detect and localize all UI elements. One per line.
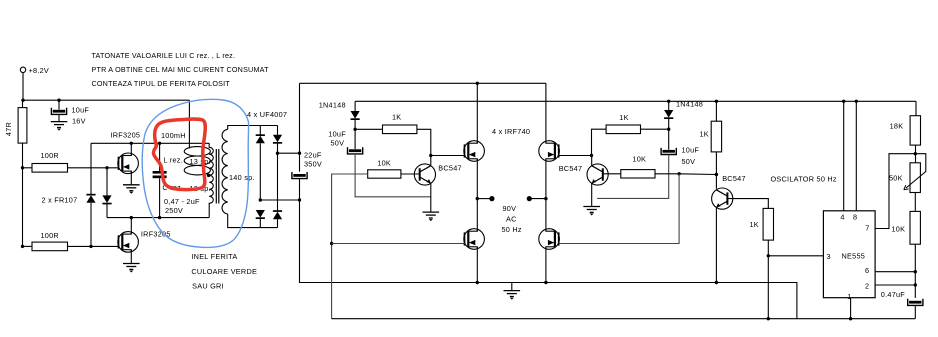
resistor 10K left driver [368, 159, 401, 179]
node bus DC minus [298, 198, 301, 201]
capacitor C rez 0.47-2uF 250V [153, 143, 200, 217]
node supply left [21, 99, 24, 102]
wire source M4 to ground line [545, 247, 547, 283]
resistor 47R [4, 108, 27, 144]
wire 1K to gate node M3 [559, 129, 606, 155]
terminal output left [489, 196, 494, 201]
svg-text:18K: 18K [890, 122, 904, 131]
transistor BC547 oscillator buffer [712, 174, 746, 209]
pin 3 [768, 252, 831, 261]
terminal +8.2V [20, 66, 49, 75]
transformer primary 13sp upper [190, 143, 214, 175]
diode 1N4148 left [319, 101, 360, 130]
svg-text:+8.2V: +8.2V [29, 66, 50, 75]
svg-text:2 x FR107: 2 x FR107 [42, 196, 78, 205]
svg-text:CULOARE VERDE: CULOARE VERDE [191, 267, 257, 276]
wire DC minus to bus [260, 199, 299, 201]
svg-text:1K: 1K [750, 220, 759, 229]
wire 1K to gate node M1 [417, 129, 465, 155]
svg-text:13 sp.: 13 sp. [190, 157, 211, 166]
node pin3 [767, 254, 770, 257]
node pin2 [914, 283, 917, 286]
resistor 1K left driver [383, 113, 417, 134]
wire bottom rail [332, 318, 916, 320]
node primary centre tap [207, 174, 211, 178]
wire pin3 to bottom rail [767, 256, 769, 319]
wire 18K to pot node [915, 145, 917, 163]
svg-text:NE555: NE555 [842, 252, 866, 261]
transistor IRF3205 Q2 [118, 230, 171, 253]
svg-text:BC547: BC547 [438, 164, 462, 173]
wire terminal to rail [22, 73, 24, 101]
node emitter ground line [715, 281, 718, 284]
node bridge DC minus [259, 198, 262, 201]
wire source M3 to output [545, 159, 547, 199]
svg-text:140 sp.: 140 sp. [229, 173, 255, 182]
node output right column [544, 197, 547, 200]
wire 10K to base right BC547 [603, 173, 621, 175]
svg-text:PTR A OBTINE CEL MAI MIC CUREN: PTR A OBTINE CEL MAI MIC CURENT CONSUMAT [92, 65, 270, 74]
pin 8 [853, 100, 858, 222]
node output left column [476, 197, 479, 200]
transformer core [216, 149, 219, 204]
svg-text:16V: 16V [72, 117, 86, 126]
ground mid bridge [504, 291, 521, 300]
terminal output right [527, 196, 532, 201]
transistor IRF740 top-right [539, 141, 560, 162]
svg-text:IRF3205: IRF3205 [141, 230, 171, 239]
wire 1K load to collector [715, 152, 717, 189]
wire node to 1K [355, 128, 382, 130]
svg-text:8: 8 [853, 213, 857, 222]
annotation blue loop [142, 99, 248, 247]
wire 0.47uF to rail [914, 305, 916, 318]
svg-text:10K: 10K [632, 155, 646, 164]
node bus DC plus [298, 152, 301, 155]
node drain1 Q1 [130, 142, 133, 145]
svg-text:350V: 350V [304, 160, 322, 169]
svg-text:100R: 100R [41, 231, 59, 240]
svg-text:4 x IRF740: 4 x IRF740 [492, 127, 530, 136]
wire emitter right BC547 [591, 183, 593, 206]
node gate Q2 / diode tap [89, 245, 92, 248]
node drive right [677, 172, 680, 175]
transistor IRF740 bottom-right [539, 229, 560, 250]
node gate M2 drive [330, 242, 333, 245]
wire 100R to gate Q2 [68, 245, 119, 247]
potentiometer 50K [889, 154, 926, 193]
node gate M3 [590, 154, 593, 157]
wire collector left BC547 [430, 156, 432, 166]
wire output stub left [477, 198, 492, 200]
capacitor 22uF 350V [292, 151, 322, 179]
resistor 1K base [750, 208, 774, 240]
wire 10K right to drive node [655, 173, 679, 175]
wire pot to 10K [914, 193, 916, 212]
wire base to 1K base resistor [728, 199, 769, 209]
ground Q2 [123, 264, 140, 273]
pin 7 [865, 154, 915, 233]
resistor 10K right driver [621, 155, 655, 179]
diode FR107 right [102, 168, 111, 218]
svg-text:2: 2 [865, 282, 869, 291]
ground right BC547 [583, 207, 600, 216]
wire rail to 47R [22, 100, 24, 107]
wire drain M3 [545, 83, 547, 143]
svg-text:3: 3 [827, 252, 831, 261]
wire drive to gate M2 [332, 243, 465, 245]
capacitor 10uF 50V left [328, 129, 362, 154]
wire drain row 1 [91, 142, 209, 144]
svg-text:1N4148: 1N4148 [676, 100, 703, 109]
transistor BC547 right driver [559, 164, 608, 185]
wire source Q2 [130, 250, 132, 264]
ground left BC547 [423, 212, 440, 221]
diode UF4007 top-right [273, 126, 282, 212]
wire cap to emitter left [355, 154, 431, 197]
wire rail to 1K load [715, 101, 717, 121]
svg-text:1N4148: 1N4148 [319, 101, 346, 110]
label 90V AC 50Hz [502, 204, 522, 234]
wire 47R to gate rows [22, 143, 24, 246]
svg-text:100mH: 100mH [161, 131, 186, 140]
diode 1N4148 right [664, 100, 703, 130]
svg-text:IRF3205: IRF3205 [111, 131, 141, 140]
wire 10K to pins 6 2 [914, 244, 916, 298]
wire drive to gate M4 [559, 174, 679, 244]
wire 100R to gate Q1 [68, 167, 119, 169]
wire C1 to ground [58, 114, 60, 121]
svg-text:0.47uF: 0.47uF [881, 290, 906, 299]
IC NE555 [823, 211, 875, 298]
wire 1K base to pin3 node [767, 240, 769, 256]
wire drain Q1 [130, 143, 132, 155]
svg-text:SAU GRI: SAU GRI [192, 282, 224, 291]
resistor 1K collector load [700, 121, 722, 152]
svg-text:90V: 90V [503, 204, 517, 213]
svg-text:10uF: 10uF [72, 106, 90, 115]
node pin3 bottom rail [767, 317, 770, 320]
pin 1 [847, 292, 852, 320]
node ground line left column [476, 281, 479, 284]
wire node to 1K right [641, 128, 669, 130]
svg-text:10K: 10K [377, 159, 391, 168]
wire drain row 2 [107, 217, 209, 219]
node bootstrap rail right [667, 100, 670, 103]
pin 2 [865, 282, 915, 291]
diode FR107 left [86, 143, 95, 246]
wire DC bus lower [300, 179, 797, 319]
wire source M1 to output [476, 159, 478, 199]
node C rez bottom [158, 216, 161, 219]
svg-text:10K: 10K [892, 225, 906, 234]
wire row1 left [23, 167, 33, 169]
svg-text:250V: 250V [165, 206, 183, 215]
svg-text:47R: 47R [4, 122, 13, 136]
wire collector right BC547 [591, 156, 593, 166]
node drain2 Q2 [130, 216, 133, 219]
svg-text:1K: 1K [700, 130, 709, 139]
pin 6 [865, 266, 915, 275]
wire supply drop to choke [188, 100, 190, 148]
svg-text:6: 6 [865, 266, 869, 275]
capacitor 10uF 50V right [661, 129, 699, 166]
svg-text:1: 1 [847, 292, 851, 301]
wire cap to emitter right [597, 155, 669, 199]
wire rail DC plus H-bridge [300, 82, 546, 84]
svg-text:0,47 - 2uF: 0,47 - 2uF [164, 197, 200, 206]
node bootstrap right [667, 128, 670, 131]
diode UF4007 top-left [256, 126, 265, 201]
svg-text:10uF: 10uF [328, 129, 346, 138]
svg-text:L rez.: L rez. [164, 156, 183, 165]
transformer primary 13sp lower [190, 175, 214, 217]
svg-text:1K: 1K [392, 113, 401, 122]
label INEL FERITA [191, 252, 257, 291]
wire source M2 to ground line [476, 247, 478, 283]
wire drain Q2 [130, 218, 132, 235]
wire source Q1 [130, 171, 132, 185]
node gate M1 [429, 154, 432, 157]
wire rail to 18K [915, 101, 917, 115]
wire secondary top to bridge [228, 126, 278, 130]
wire 10K to drive column [332, 174, 368, 319]
wire drain M4 [545, 199, 547, 232]
svg-text:50V: 50V [682, 157, 696, 166]
wire drive node to collector node [679, 173, 716, 176]
svg-text:BC547: BC547 [722, 174, 746, 183]
diode UF4007 bottom-left [256, 210, 265, 228]
resistor 100R lower [32, 231, 68, 251]
svg-text:10uF: 10uF [682, 146, 700, 155]
svg-text:50 Hz: 50 Hz [502, 225, 522, 234]
svg-text:7: 7 [865, 224, 869, 233]
diode UF4007 bottom-right [273, 210, 282, 227]
svg-text:INEL FERITA: INEL FERITA [191, 252, 237, 261]
wire 10K to base left BC547 [401, 173, 420, 175]
wire emitter oscillator BC547 [715, 208, 717, 283]
wire row2 left [23, 245, 33, 247]
node bootstrap left [353, 128, 356, 131]
capacitor 10uF 16V [51, 106, 89, 126]
resistor 10K timing [892, 211, 921, 244]
wire drain M2 [476, 199, 478, 232]
inductor L rez 100mH [184, 147, 210, 176]
svg-text:OSCILATOR 50 Hz: OSCILATOR 50 Hz [771, 175, 837, 184]
node gate Q1 / diode tap [105, 166, 108, 169]
node gate row 2 [21, 245, 24, 248]
resistor 18K [890, 116, 921, 145]
node C rez top [158, 142, 161, 145]
pin 4 [840, 100, 845, 222]
ground Q1 [123, 185, 140, 194]
annotation red loop [153, 119, 205, 190]
wire output stub right [529, 198, 546, 200]
wire rail to C1 [58, 100, 60, 109]
svg-text:BC547: BC547 [559, 164, 583, 173]
transformer secondary 140sp [222, 129, 255, 214]
wire drain M1 [476, 83, 478, 143]
svg-text:4 x UF4007: 4 x UF4007 [247, 110, 287, 119]
svg-text:100R: 100R [41, 151, 59, 160]
svg-text:AC: AC [506, 215, 517, 224]
wire bootstrap rail [355, 100, 916, 102]
svg-text:50K: 50K [889, 174, 903, 183]
node 1K load rail [715, 100, 718, 103]
wire DC bus upper [299, 83, 301, 171]
capacitor 0.47uF [881, 290, 923, 305]
svg-text:1K: 1K [619, 113, 628, 122]
node ground line right column [544, 281, 547, 284]
svg-text:50V: 50V [331, 139, 345, 148]
node pin6 [914, 270, 917, 273]
svg-text:22uF: 22uF [304, 151, 322, 160]
wire emitter left BC547 [430, 183, 432, 212]
transistor IRF740 bottom-left [464, 229, 485, 250]
node rail left column [476, 82, 479, 85]
resistor 1K right driver [606, 113, 640, 134]
resistor 100R upper [32, 151, 68, 172]
node gate row 1 [21, 166, 24, 169]
transistor IRF3205 Q1 [111, 131, 141, 174]
node collector oscillator BC547 [715, 173, 718, 176]
svg-text:CONTEAZA TIPUL DE FERITA FOL: CONTEAZA TIPUL DE FERITA FOLOSIT [92, 79, 231, 88]
transistor BC547 left driver [414, 164, 462, 186]
svg-text:4: 4 [840, 213, 844, 222]
note text block [92, 51, 270, 88]
ground C1 [51, 122, 68, 131]
wire +8.2V top rail [22, 99, 189, 101]
wire ground stub mid bridge [511, 283, 513, 291]
node bridge DC plus [276, 152, 279, 155]
transistor IRF740 top-left [464, 141, 485, 162]
node filter cap tap [57, 99, 60, 102]
svg-text:TATONATE VALOARILE LUI C rez.: TATONATE VALOARILE LUI C rez. , L rez. [92, 51, 236, 60]
wire DC plus to bus [278, 152, 300, 154]
wire secondary bottom to bridge [228, 214, 278, 228]
node pot top [914, 152, 917, 155]
